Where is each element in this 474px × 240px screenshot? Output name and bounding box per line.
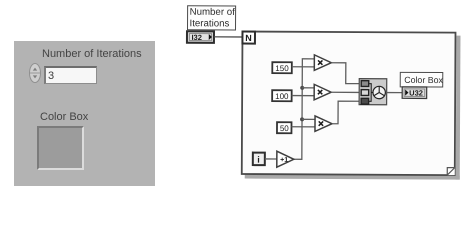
junction dot A xyxy=(300,86,304,90)
value 3 xyxy=(48,70,54,82)
wire 100 to multiply xyxy=(292,95,314,97)
RGB to Color function node xyxy=(359,79,387,105)
svg-text:Number of: Number of xyxy=(190,7,236,18)
wire multiply1 to RGB R input xyxy=(331,63,359,84)
multiply node 1 xyxy=(314,55,331,71)
loop resize grip xyxy=(447,168,455,176)
wire I32 to N xyxy=(214,36,242,38)
svg-text:Iterations: Iterations xyxy=(190,18,230,29)
wire i to increment xyxy=(265,158,277,160)
terminal I32 control xyxy=(187,31,214,43)
wire multiply3 to RGB B input xyxy=(332,101,359,124)
svg-text:Color Box: Color Box xyxy=(404,75,443,85)
terminal U32 indicator xyxy=(402,87,427,99)
wire 150 to multiply xyxy=(292,66,314,68)
label box Number of Iterations (diagram) xyxy=(188,6,236,30)
label Number of Iterations (front panel) xyxy=(42,48,142,60)
svg-text:i: i xyxy=(257,155,260,165)
wire branch to multiply 3 xyxy=(302,118,315,120)
svg-text:N: N xyxy=(245,33,252,43)
wire increment riser to multiplies xyxy=(294,59,315,160)
increment +1 node xyxy=(277,151,294,167)
for loop frame shadow xyxy=(456,36,461,180)
wire RGB to U32 terminal xyxy=(387,92,403,94)
svg-text:I32: I32 xyxy=(191,33,201,42)
color box indicator xyxy=(37,126,84,170)
svg-text:150: 150 xyxy=(275,64,289,73)
iteration terminal i xyxy=(253,153,265,166)
for loop frame xyxy=(242,32,456,176)
multiply node 2 xyxy=(314,84,331,100)
numeric control spinner (increment/decrement) xyxy=(28,62,44,84)
front panel window background xyxy=(14,41,155,186)
constant 150 xyxy=(272,62,292,73)
numeric control text field showing 3 xyxy=(44,66,97,84)
svg-text:+1: +1 xyxy=(280,157,288,164)
wire 50 to multiply xyxy=(291,126,314,128)
svg-text:100: 100 xyxy=(275,92,289,101)
junction dot B xyxy=(300,117,304,121)
wire branch to multiply 2 xyxy=(302,87,314,89)
constant 100 xyxy=(272,90,292,101)
constant 50 xyxy=(277,122,292,133)
loop count terminal N xyxy=(242,32,255,44)
wire multiply2 to RGB G input xyxy=(331,91,359,93)
svg-text:U32: U32 xyxy=(409,88,423,97)
label Color Box (front panel) xyxy=(40,111,88,123)
svg-text:50: 50 xyxy=(280,124,289,133)
multiply node 3 xyxy=(315,116,332,132)
label box Color Box (diagram) xyxy=(400,72,443,87)
